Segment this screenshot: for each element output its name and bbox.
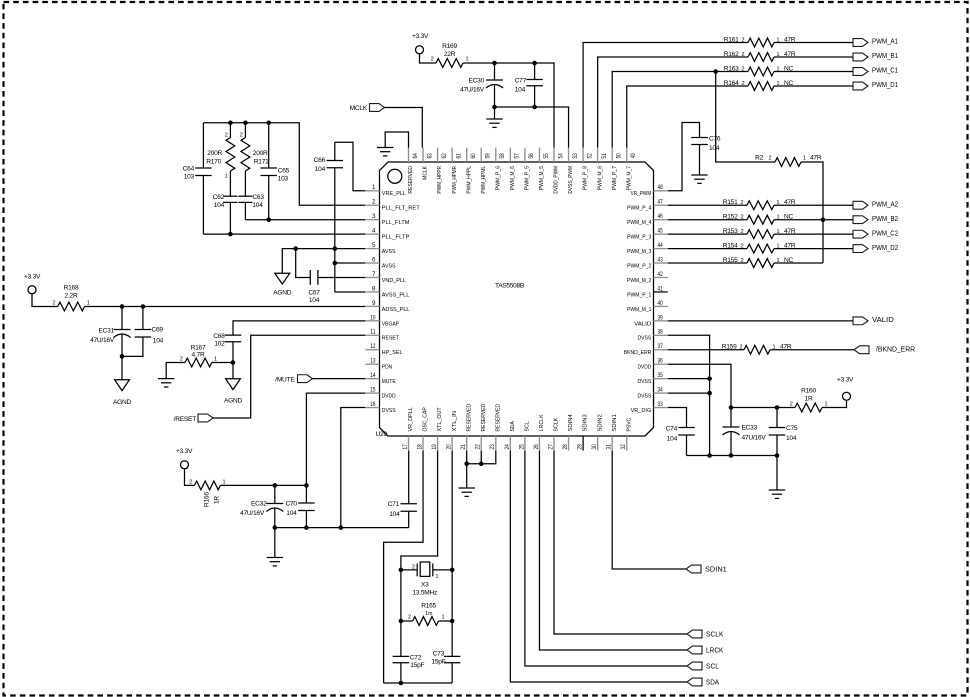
svg-text:28: 28 <box>562 444 569 450</box>
connector PWM_B1 <box>853 51 898 61</box>
resistor R160 1R <box>790 387 828 412</box>
svg-text:47: 47 <box>658 199 664 206</box>
svg-text:104: 104 <box>515 87 526 94</box>
junction dot bottom rail <box>399 681 404 686</box>
svg-text:1: 1 <box>803 155 806 161</box>
svg-text:104: 104 <box>153 338 164 345</box>
ground AGND (left of chip) <box>273 249 295 297</box>
wire pin to R164 <box>627 86 748 148</box>
svg-text:3: 3 <box>372 213 376 220</box>
svg-text:PWM_M_6: PWM_M_6 <box>510 165 516 190</box>
wire pin to R152 <box>668 219 747 221</box>
connector PWM_A1 <box>853 37 898 47</box>
wire pin to R153 <box>668 233 747 235</box>
svg-text:EC30: EC30 <box>469 78 485 85</box>
svg-text:EC33: EC33 <box>742 425 758 432</box>
svg-text:SDA: SDA <box>706 677 719 686</box>
svg-text:2: 2 <box>240 133 243 139</box>
svg-text:20: 20 <box>446 444 453 450</box>
wire pin to R154 <box>668 248 747 250</box>
svg-text:55: 55 <box>543 153 550 159</box>
svg-text:AGND: AGND <box>273 289 292 296</box>
svg-text:27: 27 <box>547 444 554 450</box>
U29 pins left side 1-16 (stubs, numbers, names) <box>365 184 420 414</box>
junction dots DVDD rail <box>729 405 780 410</box>
svg-text:61: 61 <box>455 153 462 159</box>
svg-text:C64: C64 <box>183 166 195 173</box>
svg-text:DVSS: DVSS <box>382 408 396 414</box>
svg-text:51: 51 <box>601 153 608 159</box>
svg-text:1: 1 <box>372 184 376 191</box>
svg-text:42: 42 <box>658 271 664 278</box>
wire pin to SCLK <box>554 451 687 634</box>
svg-text:R151: R151 <box>723 199 738 206</box>
junction dot row 3 <box>266 217 271 222</box>
svg-text:15: 15 <box>370 387 376 394</box>
svg-text:R169: R169 <box>442 43 457 50</box>
svg-text:47U/16V: 47U/16V <box>460 87 485 94</box>
svg-text:41: 41 <box>658 285 664 292</box>
svg-text:HP_SEL: HP_SEL <box>382 350 403 356</box>
svg-text:SDIN2: SDIN2 <box>597 414 603 431</box>
svg-text:PWM_M_4: PWM_M_4 <box>627 220 652 226</box>
svg-text:2: 2 <box>741 200 744 206</box>
connector /RESET <box>174 414 213 423</box>
wire pin 20 XTL_IN to crystal right <box>451 451 453 570</box>
svg-text:13.5MHz: 13.5MHz <box>412 589 437 596</box>
svg-text:R164: R164 <box>724 80 739 87</box>
resistor R162 47R <box>724 51 796 62</box>
svg-text:R170: R170 <box>206 158 221 165</box>
capacitor EC32 47U/16V <box>240 485 283 527</box>
wire R152 to connector <box>774 219 853 221</box>
svg-text:31: 31 <box>606 444 613 450</box>
svg-text:DVSS: DVSS <box>638 336 652 342</box>
svg-text:DVDD: DVDD <box>382 394 396 400</box>
svg-text:47U/16V: 47U/16V <box>90 337 115 344</box>
svg-text:VND_PLL: VND_PLL <box>382 278 407 284</box>
svg-text:2: 2 <box>740 345 743 351</box>
svg-text:SDIN4: SDIN4 <box>568 414 574 432</box>
capacitor EC33 47U/16V <box>723 425 767 456</box>
svg-text:VR_DPLL: VR_DPLL <box>408 407 414 432</box>
svg-text:39: 39 <box>658 314 664 321</box>
wire +3.3V to R168 <box>32 294 58 307</box>
IC U29 TAS5508B body <box>375 162 653 438</box>
svg-text:R166: R166 <box>204 492 211 507</box>
capacitor C71 104 <box>388 451 417 528</box>
junction dot R2 net row 46 <box>821 217 826 222</box>
svg-text:MCLK: MCLK <box>350 105 368 112</box>
svg-text:10: 10 <box>370 314 376 321</box>
svg-text:RESET: RESET <box>382 336 400 342</box>
svg-text:OSC_CAP: OSC_CAP <box>423 407 429 431</box>
capacitor EC30 47U/16V <box>460 63 503 107</box>
svg-text:47R: 47R <box>810 154 822 161</box>
svg-text:21: 21 <box>460 444 467 450</box>
svg-text:33: 33 <box>658 401 664 408</box>
svg-text:PLL_FLTP: PLL_FLTP <box>382 235 410 241</box>
svg-text:SCL: SCL <box>706 661 719 670</box>
svg-text:DVDD_PWM: DVDD_PWM <box>554 166 560 194</box>
power +3.3V terminal (top) <box>412 33 429 54</box>
wire pin 33 VR_DIG to C74 <box>668 408 687 428</box>
wire DVSS pins 38/35/34 bus <box>668 335 710 455</box>
capacitor C67 104 (series pin 7) <box>296 249 366 304</box>
svg-text:R163: R163 <box>724 65 739 72</box>
ground AGND (under C68) <box>224 363 243 405</box>
ground (left of R167) <box>158 378 174 380</box>
svg-text:PWM_M_7: PWM_M_7 <box>626 166 632 190</box>
wire PLL top rail to pin 2 <box>203 123 365 205</box>
svg-text:1: 1 <box>87 300 90 306</box>
svg-text:103: 103 <box>184 173 195 180</box>
svg-text:PWM_P_7: PWM_P_7 <box>612 166 618 190</box>
wire pin to SCL <box>525 451 687 666</box>
svg-text:2: 2 <box>741 215 744 221</box>
capacitor C68 102 <box>213 333 241 363</box>
capacitor C73 15pF <box>431 650 460 683</box>
svg-text:2: 2 <box>189 479 192 485</box>
svg-text:2: 2 <box>225 133 228 139</box>
svg-text:104: 104 <box>315 166 326 173</box>
svg-text:BKND_ERR: BKND_ERR <box>624 350 652 356</box>
connector SDA <box>687 677 719 686</box>
wire C66 top to pin 1 VRE_PLL <box>335 142 365 191</box>
wire pin 16 DVSS down <box>341 408 365 528</box>
svg-text:6: 6 <box>372 256 376 263</box>
svg-text:PWM_P_8: PWM_P_8 <box>583 165 589 190</box>
wire pin 37 BKND_ERR to R159 <box>668 349 744 351</box>
power +3.3V terminal (right) <box>822 377 854 408</box>
svg-text:2: 2 <box>52 300 55 306</box>
junction dot EC31/C69 <box>120 354 125 359</box>
svg-text:C63: C63 <box>252 194 264 201</box>
svg-text:C70: C70 <box>286 501 298 508</box>
svg-text:9: 9 <box>372 300 376 307</box>
wire row 6 AVSS <box>335 262 365 264</box>
svg-text:2: 2 <box>790 401 793 407</box>
svg-text:12: 12 <box>370 343 376 350</box>
wire pin to R151 <box>668 204 747 206</box>
svg-text:TAS5508B: TAS5508B <box>495 282 525 289</box>
svg-text:PWM_M_1: PWM_M_1 <box>627 307 651 313</box>
svg-text:25: 25 <box>518 444 525 450</box>
svg-text:62: 62 <box>441 153 448 159</box>
connector PWM_A2 <box>853 199 898 209</box>
svg-text:PWM_P_4: PWM_P_4 <box>627 206 652 212</box>
svg-text:PWM_A1: PWM_A1 <box>872 37 898 46</box>
capacitor C65 103 <box>260 123 289 220</box>
resistor R170 200R <box>206 123 235 196</box>
svg-text:RESERVED: RESERVED <box>408 166 414 194</box>
resistor R154 47R <box>723 242 796 253</box>
wire RESERVED pins 21-23 to ground <box>467 451 496 488</box>
ground (under EC30) <box>486 107 502 127</box>
svg-text:C65: C65 <box>278 168 290 175</box>
resistor R161 47R <box>724 36 796 47</box>
crystal X3 13.5MHz <box>401 562 452 596</box>
svg-text:C77: C77 <box>515 78 527 85</box>
resistor R169 22R <box>431 43 469 67</box>
svg-text:PLL_FLTM: PLL_FLTM <box>382 220 410 226</box>
junction dots right ground rail <box>729 453 780 458</box>
svg-text:45: 45 <box>658 228 664 235</box>
resistor R164 NC <box>724 80 794 91</box>
svg-text:C69: C69 <box>152 326 164 333</box>
wire bottom-left ground rail <box>275 527 409 529</box>
svg-text:DVSS_PWM: DVSS_PWM <box>568 166 574 194</box>
wire pin to R155 <box>668 262 747 264</box>
svg-text:37: 37 <box>658 343 664 350</box>
capacitor C77 104 <box>515 63 543 107</box>
wire R151 to connector <box>774 204 853 206</box>
junction dots PLL rail <box>228 121 271 126</box>
svg-text:R159: R159 <box>722 344 737 351</box>
svg-text:2: 2 <box>408 615 411 621</box>
svg-text:104: 104 <box>786 435 797 442</box>
wire pin 36 DVDD down <box>668 364 731 427</box>
svg-text:C73: C73 <box>433 650 445 657</box>
svg-text:PWM_M_2: PWM_M_2 <box>627 278 651 284</box>
connector MCLK input <box>350 104 385 112</box>
wire pin 48 VR_PWM to C76 <box>668 123 700 191</box>
svg-text:104: 104 <box>214 202 225 209</box>
svg-text:1: 1 <box>825 401 828 407</box>
svg-text:104: 104 <box>667 435 678 442</box>
svg-text:2: 2 <box>742 52 745 58</box>
svg-text:104: 104 <box>252 202 263 209</box>
svg-text:RESERVED: RESERVED <box>495 404 501 432</box>
svg-text:PWM_P_3: PWM_P_3 <box>627 235 652 241</box>
svg-text:60: 60 <box>470 153 477 159</box>
svg-text:46: 46 <box>658 213 664 220</box>
svg-text:PWM_C2: PWM_C2 <box>872 228 898 237</box>
wire R163 to connector <box>774 71 853 73</box>
svg-text:+3.3V: +3.3V <box>24 274 41 281</box>
svg-text:PWM_HPPR: PWM_HPPR <box>437 166 443 194</box>
svg-text:DVSS: DVSS <box>638 379 652 385</box>
svg-text:102: 102 <box>214 340 225 347</box>
svg-text:PLL_FLT_RET: PLL_FLT_RET <box>382 206 420 212</box>
svg-text:AGND: AGND <box>113 399 132 406</box>
svg-text:2: 2 <box>742 66 745 72</box>
resistor R152 NC <box>723 214 794 225</box>
svg-text:+3.3V: +3.3V <box>837 377 854 384</box>
svg-text:104: 104 <box>389 511 400 518</box>
svg-text:R155: R155 <box>723 257 738 264</box>
wire pin to R162 <box>598 57 748 148</box>
svg-text:1: 1 <box>442 615 445 621</box>
svg-text:24: 24 <box>504 444 511 450</box>
wire +3.3V to R169 <box>420 54 437 63</box>
svg-text:+3.3V: +3.3V <box>176 448 193 455</box>
wire row 5 AVSS <box>296 248 366 250</box>
svg-text:VBGAP: VBGAP <box>382 321 399 327</box>
wire R161 to connector <box>774 42 853 44</box>
svg-text:AVSS: AVSS <box>382 249 396 255</box>
svg-text:R162: R162 <box>724 51 739 58</box>
capacitor C75 104 <box>769 408 798 456</box>
capacitor C74 104 <box>666 426 695 456</box>
junction dots DVDD node <box>273 483 309 488</box>
svg-text:C72: C72 <box>410 654 422 661</box>
wire pin 15 DVDD down <box>306 393 365 485</box>
svg-text:C75: C75 <box>786 425 798 432</box>
svg-text:47U/16V: 47U/16V <box>742 435 767 442</box>
svg-text:2: 2 <box>741 258 744 264</box>
wire row 9 ADSS_PLL <box>85 306 366 308</box>
svg-text:PWM_P_1: PWM_P_1 <box>627 292 651 298</box>
wire MCLK to pin 63 <box>385 108 423 148</box>
wire row 8 AVSS_PLL <box>335 291 365 293</box>
wire DVDD rail to R160 <box>731 407 795 409</box>
wire pin 64 RESERVED to ground <box>385 132 408 148</box>
U29 pins right side 48-33 (stubs, numbers, names) <box>624 184 668 414</box>
svg-text:VALID: VALID <box>634 321 651 327</box>
svg-text:C71: C71 <box>388 501 400 508</box>
junction dots ground rail <box>273 525 344 530</box>
wire R167 to ground <box>166 363 185 379</box>
wire R164 to connector <box>774 85 853 87</box>
svg-text:R161: R161 <box>724 36 739 43</box>
svg-text:1: 1 <box>225 174 228 180</box>
svg-text:RESERVED: RESERVED <box>466 404 472 432</box>
svg-text:2: 2 <box>412 565 415 571</box>
wire pin to LRCK <box>539 451 687 650</box>
svg-text:PWM_C1: PWM_C1 <box>872 66 898 75</box>
wire +3.3V to R166 <box>185 469 195 486</box>
wire R162 to connector <box>774 56 853 58</box>
svg-text:23: 23 <box>489 444 496 450</box>
svg-text:22R: 22R <box>444 51 456 58</box>
svg-text:R168: R168 <box>64 284 79 291</box>
svg-text:MUTE: MUTE <box>382 379 396 385</box>
svg-text:7: 7 <box>372 271 376 278</box>
svg-text:40: 40 <box>658 300 664 307</box>
resistor R153 47R <box>723 228 796 239</box>
svg-text:59: 59 <box>485 153 492 159</box>
svg-text:VRE_PLL: VRE_PLL <box>382 191 407 197</box>
svg-text:/RESET: /RESET <box>174 416 197 423</box>
svg-text:13: 13 <box>370 358 376 365</box>
capacitor C66 104 <box>314 142 343 292</box>
svg-text:44: 44 <box>658 242 664 249</box>
svg-text:52: 52 <box>586 153 593 159</box>
svg-text:R167: R167 <box>191 344 206 351</box>
ground (right rail) <box>769 489 785 491</box>
svg-text:1R: 1R <box>805 396 813 403</box>
power +3.3V terminal (bottom left) <box>176 448 193 469</box>
wire pin to SDA <box>510 451 687 682</box>
connector SCL <box>687 661 719 670</box>
svg-text:56: 56 <box>528 153 535 159</box>
svg-text:LRCLK: LRCLK <box>539 414 545 431</box>
svg-text:ADSS_PLL: ADSS_PLL <box>382 307 410 313</box>
svg-text:2: 2 <box>180 356 183 362</box>
svg-text:AVSS_PLL: AVSS_PLL <box>382 292 410 298</box>
svg-text:R153: R153 <box>723 228 738 235</box>
resistor R159 47R <box>722 344 792 355</box>
connector PWM_C1 <box>853 66 898 76</box>
svg-text:DVSS: DVSS <box>638 394 652 400</box>
svg-text:SDA: SDA <box>510 421 516 431</box>
svg-text:34: 34 <box>658 387 664 394</box>
svg-text:PWM_P_6: PWM_P_6 <box>495 165 501 190</box>
svg-text:PWM_M_5: PWM_M_5 <box>539 165 545 190</box>
svg-text:64: 64 <box>412 153 419 159</box>
wire crystal right rail <box>451 570 453 657</box>
svg-text:58: 58 <box>499 153 506 159</box>
svg-text:2: 2 <box>741 229 744 235</box>
svg-text:PWM_D2: PWM_D2 <box>872 243 898 252</box>
connector SDIN1 <box>686 564 727 573</box>
svg-text:RESERVED: RESERVED <box>481 404 487 432</box>
wire ground rail to DVSS_PWM pin 53 <box>495 107 569 148</box>
U29 pins bottom side 17-32 (stubs, numbers, names) <box>402 404 632 451</box>
svg-text:PDN: PDN <box>382 365 392 371</box>
junction dots crystal rails <box>399 568 455 624</box>
svg-text:50: 50 <box>616 153 623 159</box>
svg-text:R160: R160 <box>801 387 816 394</box>
svg-text:EC31: EC31 <box>99 327 115 334</box>
svg-text:4.7R: 4.7R <box>192 351 205 358</box>
ground (near pin 64) <box>377 147 393 149</box>
wire pin 39 VALID <box>668 320 853 322</box>
resistor R2 47R <box>755 154 822 166</box>
svg-text:DVDD: DVDD <box>638 365 652 371</box>
svg-text:16: 16 <box>370 401 376 408</box>
svg-text:35: 35 <box>658 372 664 379</box>
svg-text:SCLK: SCLK <box>706 629 724 638</box>
wire R159 to connector <box>770 349 854 351</box>
capacitor C76 104 <box>691 135 721 175</box>
svg-text:SDIN1: SDIN1 <box>705 564 727 573</box>
svg-text:XTL_OUT: XTL_OUT <box>437 407 443 432</box>
svg-text:29: 29 <box>577 444 584 450</box>
power +3.3V terminal (left) <box>24 274 41 294</box>
svg-text:15pF: 15pF <box>410 662 424 669</box>
svg-text:30: 30 <box>591 444 598 450</box>
svg-text:PWM_B2: PWM_B2 <box>872 214 898 223</box>
svg-text:15pF: 15pF <box>431 659 445 666</box>
junction dots top supply <box>492 61 537 110</box>
wire /RESET to pin 11 <box>213 335 365 418</box>
wire R166 to DVDD node <box>220 484 306 486</box>
wire R154 to connector <box>774 248 853 250</box>
svg-text:VR_DIG: VR_DIG <box>631 408 652 414</box>
svg-text:VALID: VALID <box>872 315 894 324</box>
svg-text:2: 2 <box>742 81 745 87</box>
wire right ground rail <box>687 456 778 491</box>
svg-text:PWM_M_3: PWM_M_3 <box>627 249 652 255</box>
svg-text:PSVC: PSVC <box>626 417 632 431</box>
svg-text:PWM_P_5: PWM_P_5 <box>525 165 531 190</box>
U29 pins top side 64-49 (stubs, numbers, names) <box>408 148 637 194</box>
junction dots DVSS bus <box>707 376 712 457</box>
junction dot C68/R167 <box>231 360 236 365</box>
svg-text:18: 18 <box>416 444 423 450</box>
capacitor C72 15pF <box>393 654 425 683</box>
resistor R165 1m <box>401 602 452 625</box>
svg-text:1R: 1R <box>214 496 221 504</box>
junction dots AVSS <box>293 246 337 265</box>
svg-text:43: 43 <box>658 256 664 263</box>
svg-text:49: 49 <box>630 153 637 159</box>
svg-text:R165: R165 <box>421 602 436 609</box>
wire crystal left rail <box>400 570 402 657</box>
resistor R163 NC <box>724 65 794 76</box>
